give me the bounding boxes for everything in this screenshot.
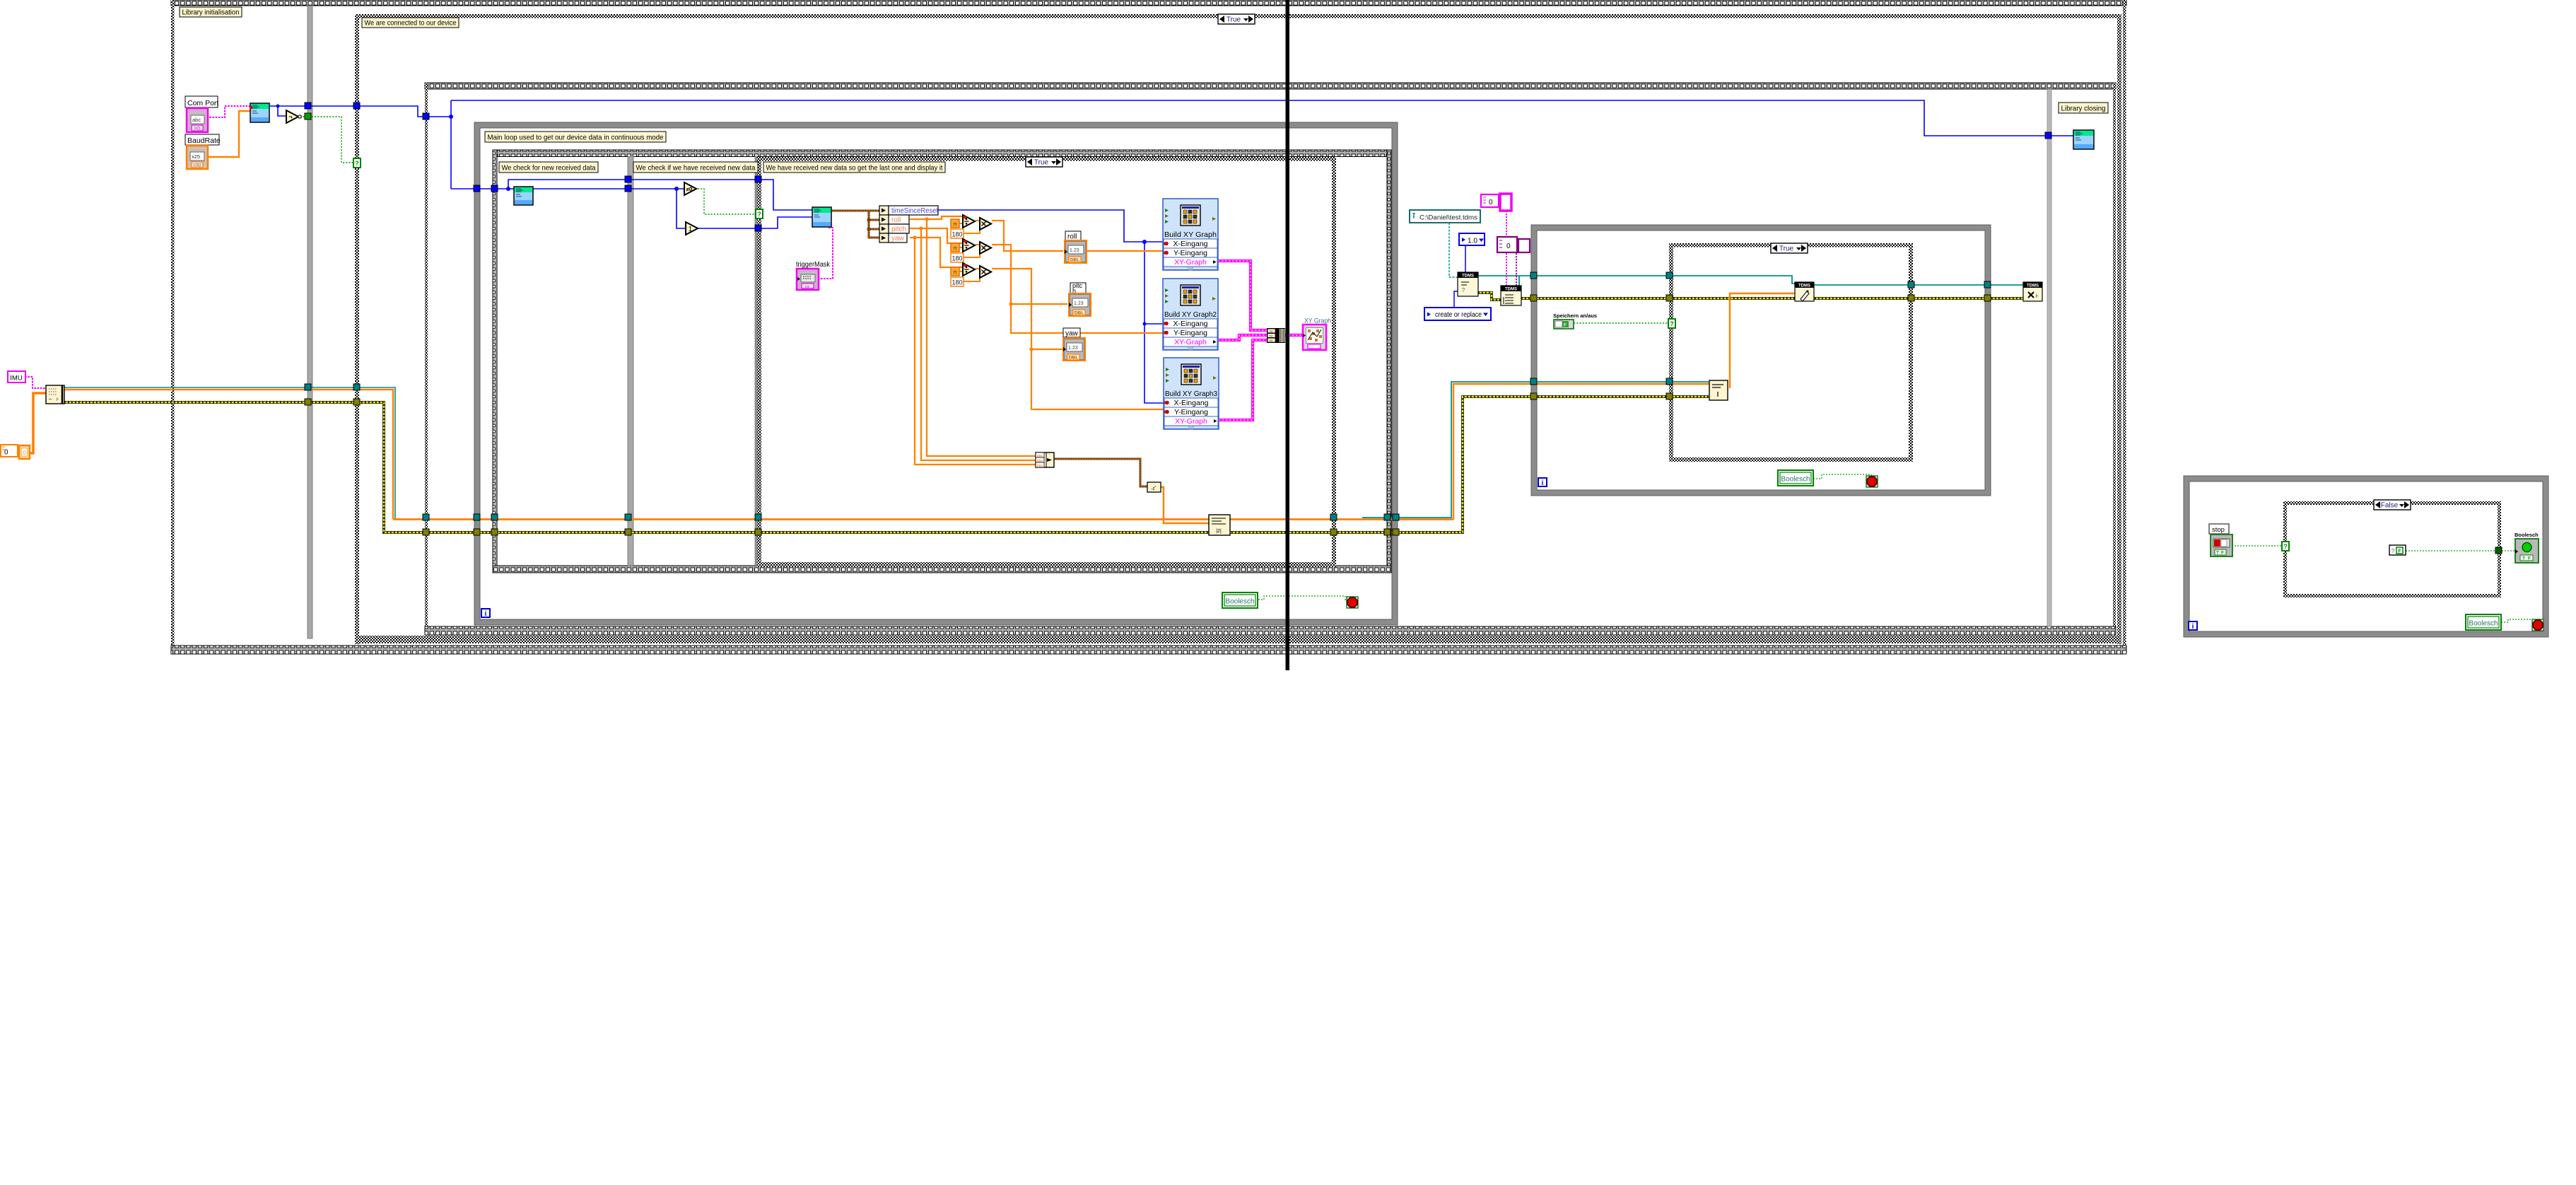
svg-text:abc: abc xyxy=(192,117,201,123)
wire: Boolesch loop4 to stop terminal xyxy=(2501,619,2533,624)
flat sequence seq1 (outer) xyxy=(171,0,2126,6)
comment: We check if we have received new data xyxy=(633,162,758,173)
wire: teal path lane (cluster to TDMS loop) xyxy=(64,387,395,518)
svg-text:TDMS: TDMS xyxy=(1505,288,1517,292)
wire: create-or-replace blue xyxy=(1454,291,1458,308)
svg-text:Build XY Graph2: Build XY Graph2 xyxy=(1164,310,1217,319)
svg-text:180: 180 xyxy=(952,255,962,262)
control: BaudRate xyxy=(185,134,219,145)
subVI: library closing xyxy=(2073,130,2094,149)
build array node (3 DBL to array) xyxy=(1036,453,1054,467)
indicator: Boolesch (TDMS loop) xyxy=(1778,470,1813,486)
wire: TDMS teal refnum chain xyxy=(1478,276,1795,284)
wire: pitch orange xyxy=(910,228,963,243)
svg-text:True: True xyxy=(1226,16,1241,24)
wire: roll orange xyxy=(910,216,963,219)
svg-text:π: π xyxy=(953,269,957,276)
comment: We are connected to our device xyxy=(362,18,459,28)
svg-text:IMU: IMU xyxy=(10,375,23,383)
svg-text:BaudRate: BaudRate xyxy=(187,136,221,145)
comment: Main loop xyxy=(485,132,666,142)
indicator: yaw xyxy=(1063,328,1080,337)
wire: purple constant dotted to TDMS props xyxy=(1516,253,1517,286)
wire: error lane yellow-black xyxy=(64,397,1709,532)
svg-text:X-Eingang: X-Eingang xyxy=(1173,399,1208,407)
svg-text:Boolesch: Boolesch xyxy=(1781,476,1810,484)
tunnel: green xyxy=(305,113,311,119)
iteration terminal main loop xyxy=(481,609,490,617)
svg-text:?: ? xyxy=(355,160,359,167)
svg-text:False: False xyxy=(2381,502,2399,510)
svg-text:Boolesch: Boolesch xyxy=(2469,620,2498,628)
svg-text:Library closing: Library closing xyxy=(2061,105,2106,113)
format node (=|) xyxy=(1709,380,1728,400)
case structure case4 "False" xyxy=(2283,501,2501,505)
svg-text:C:\Daniel\test.tdms: C:\Daniel\test.tdms xyxy=(1419,214,1477,222)
wire: orange array constant to bundle xyxy=(30,393,46,453)
svg-text:Y-Eingang: Y-Eingang xyxy=(1173,329,1207,337)
wire: orange BaudRate to init VI xyxy=(208,111,250,157)
svg-text:yaw: yaw xyxy=(891,235,905,243)
constant: magenta box xyxy=(1500,194,1511,211)
svg-text:1.23: 1.23 xyxy=(1068,346,1078,351)
svg-text:0: 0 xyxy=(1506,243,1511,250)
wire: magenta Com Port to init VI xyxy=(206,106,250,117)
svg-text:T: T xyxy=(2216,551,2219,556)
tunnels: dark yellow error lanes xyxy=(305,399,311,405)
case3 selector label True xyxy=(1771,243,1808,253)
svg-text:≠0: ≠0 xyxy=(686,187,693,193)
svg-text:DBL: DBL xyxy=(1069,356,1078,361)
wire: orange data lane xyxy=(64,390,393,519)
svg-text:π: π xyxy=(953,245,957,252)
svg-text:?: ? xyxy=(757,211,761,218)
case1 selector label True xyxy=(1218,14,1255,24)
svg-text:We check for new received data: We check for new received data xyxy=(502,164,596,173)
wire: pi/180 scale group wires xyxy=(959,223,963,224)
svg-text:1.0: 1.0 xyxy=(1468,238,1477,245)
while loop: TDMS save loop xyxy=(1531,225,1991,230)
express VI: Build XY Graph2 xyxy=(1163,279,1218,350)
svg-text:F: F xyxy=(1564,324,1567,328)
wire: Speichern boolean to case3 selector xyxy=(1574,322,1668,324)
control: IMU xyxy=(8,371,25,383)
svg-text:TDMS: TDMS xyxy=(1462,274,1474,279)
wire: boolean green not-gate to case1 selector xyxy=(300,117,354,163)
svg-text:?: ? xyxy=(2391,548,2395,554)
svg-text:0: 0 xyxy=(1489,199,1493,206)
unbundle by name node xyxy=(879,206,889,215)
svg-text:F: F xyxy=(2221,551,2224,556)
case structure case2 "True" (display data) xyxy=(757,157,1336,161)
svg-text:X-Eingang: X-Eingang xyxy=(1173,320,1207,328)
svg-text:We have received new data so g: We have received new data so get the las… xyxy=(766,164,943,173)
TDMS Set Properties xyxy=(1501,286,1521,305)
stop terminal TDMS loop xyxy=(1866,476,1878,487)
case selectors [?] xyxy=(353,158,361,168)
iteration terminal TDMS loop xyxy=(1538,478,1547,486)
svg-text:We are connected to our device: We are connected to our device xyxy=(365,19,457,28)
svg-text:Y-Eingang: Y-Eingang xyxy=(1174,408,1208,416)
svg-text:Build XY Graph3: Build XY Graph3 xyxy=(1165,390,1217,398)
svg-text:i: i xyxy=(485,610,487,618)
svg-text:T: T xyxy=(2522,557,2525,561)
constant: purple 0 pair xyxy=(1497,237,1517,252)
svg-text:180: 180 xyxy=(952,231,962,238)
svg-text:XY-Graph: XY-Graph xyxy=(1174,258,1207,267)
svg-text:x25: x25 xyxy=(192,153,200,160)
wire: timeSinceReset blue to XY graph X inputs xyxy=(938,210,1163,242)
svg-text:TDMS: TDMS xyxy=(2027,284,2039,288)
seq2 frame divider (library closing) xyxy=(2047,89,2051,626)
svg-text:DBL: DBL xyxy=(1070,258,1079,263)
stop terminal main loop xyxy=(1347,597,1358,608)
svg-text:TDMS: TDMS xyxy=(1798,284,1810,288)
pi constants and 180 constants with divide/multiply triangles xyxy=(951,219,959,228)
svg-text:F: F xyxy=(2528,557,2531,561)
indicator: roll xyxy=(1065,231,1081,240)
svg-text:Library initialisation: Library initialisation xyxy=(182,8,240,17)
wire: false constant to Boolesch indicator xyxy=(2406,550,2515,551)
svg-text:timeSinceReset: timeSinceReset xyxy=(891,207,938,215)
svg-text:Speichern an/aus: Speichern an/aus xyxy=(1553,313,1597,319)
subVI: check for new data xyxy=(514,187,533,205)
indicator: Boolesch label box loop4 xyxy=(2466,614,2501,630)
seq3 divider 2 xyxy=(755,156,757,566)
bundle node (3 plots) xyxy=(1267,328,1285,343)
wire: scaled roll to indicator and graph1 Y xyxy=(992,221,1063,251)
wire: magenta IMU to bundle xyxy=(25,377,46,388)
wire: short blue from init vi to not-gate xyxy=(278,106,286,116)
tunnels: TDMS refnum/error xyxy=(1530,272,1537,279)
svg-text:True: True xyxy=(1034,159,1049,167)
svg-text:XY-Graph: XY-Graph xyxy=(1175,417,1207,426)
svg-text:DBL: DBL xyxy=(1037,464,1043,467)
tunnels: blue xyxy=(305,103,311,109)
control: stop button xyxy=(2209,524,2229,534)
while loop: main loop xyxy=(474,122,1398,128)
comment: Library initialisation xyxy=(180,7,242,17)
neq0 triangle xyxy=(684,182,696,195)
svg-text:triggerMask: triggerMask xyxy=(796,261,831,269)
wire: scaled pitch to indicator and graph2 Y xyxy=(992,245,1163,333)
wire: pink XY-Graph outputs to bundle xyxy=(1218,261,1267,330)
false constant node xyxy=(2389,545,2406,555)
svg-text:create or replace: create or replace xyxy=(1435,311,1482,319)
control: Com Port xyxy=(185,96,218,107)
seq3 divider 1 xyxy=(628,156,633,566)
svg-text:i: i xyxy=(1542,479,1544,487)
svg-text:–: – xyxy=(49,396,52,402)
case2 selector label True xyxy=(1026,157,1062,167)
svg-text:Y-Eingang: Y-Eingang xyxy=(1173,249,1207,257)
constant: 1.0 ring xyxy=(1459,233,1485,245)
svg-text:U32: U32 xyxy=(193,164,201,168)
svg-text:0: 0 xyxy=(23,450,26,456)
TDMS Close xyxy=(2023,282,2042,301)
svg-text:DBL: DBL xyxy=(1037,454,1043,457)
wire: pink constant dotted to TDMS props xyxy=(1506,211,1507,286)
wire: Boolesch TDMS loop to stop terminal xyxy=(1813,474,1871,479)
svg-text:|2|: |2| xyxy=(1216,529,1222,534)
spreadsheet/format node on lanes xyxy=(1209,515,1230,535)
svg-text:stop: stop xyxy=(2212,526,2225,534)
svg-text:Main loop used to get our devi: Main loop used to get our device data in… xyxy=(488,134,664,142)
svg-text:1: 1 xyxy=(689,226,693,233)
wire: orange node up to TDMS write xyxy=(1730,293,1795,388)
express VI: Build XY Graph xyxy=(1163,199,1218,270)
wire: Boolesch main loop to stop terminal xyxy=(1255,596,1347,601)
svg-text:roll: roll xyxy=(891,216,901,224)
wire: cluster brown unbundle feed xyxy=(831,210,879,212)
svg-text:¬: ¬ xyxy=(288,113,292,120)
constant 1 triangle xyxy=(686,222,698,235)
wire: file path teal dashed xyxy=(1449,223,1458,277)
svg-text:roll: roll xyxy=(1067,233,1077,241)
svg-text:XY-Graph: XY-Graph xyxy=(1174,338,1207,346)
case4 selector label False xyxy=(2374,500,2411,510)
svg-text:X-Eingang: X-Eingang xyxy=(1173,240,1207,248)
svg-text:DBL: DBL xyxy=(1075,311,1084,316)
svg-text:180: 180 xyxy=(952,279,962,286)
wire: init VI blue handle wire to main structures xyxy=(269,106,451,117)
wire: stop button to case4 selector xyxy=(2232,545,2283,547)
wire: magenta triggerMask xyxy=(819,228,833,279)
svg-text:pitch: pitch xyxy=(891,226,906,233)
svg-text:We check if we have received n: We check if we have received new data xyxy=(636,164,756,173)
svg-text:⊦: ⊦ xyxy=(57,397,59,402)
svg-text:I/O: I/O xyxy=(194,127,200,132)
tunnels: teal lanes xyxy=(305,384,311,390)
not gate xyxy=(286,110,298,123)
svg-text:≡≡: ≡≡ xyxy=(805,285,809,289)
svg-text:⊦: ⊦ xyxy=(2036,293,2039,299)
svg-text:1.23: 1.23 xyxy=(1070,248,1079,253)
case structure case1 "We are connected to our device" xyxy=(355,14,2121,18)
seq1 frame divider xyxy=(308,6,312,638)
while loop: bottom-right stop loop xyxy=(2184,476,2548,481)
svg-text:yaw: yaw xyxy=(1065,330,1079,338)
subVI: library init xyxy=(250,103,269,122)
stop terminal loop4 xyxy=(2532,619,2543,631)
svg-text:True: True xyxy=(1779,245,1794,253)
case structure case3 "True" (TDMS write) xyxy=(1669,243,1913,247)
tunnel: green case4 xyxy=(2495,547,2502,554)
iteration terminal loop4 xyxy=(2189,621,2197,630)
constant: create or replace ring xyxy=(1424,308,1491,320)
flat sequence seq3 (3 frames) xyxy=(493,150,1391,157)
wire: cluster to 1J node and to write lane xyxy=(1054,459,1147,486)
indicator: pitch xyxy=(1070,283,1086,293)
wire: boolean green neq0 to case2 selector xyxy=(698,189,756,214)
bundle node (IMU cluster) xyxy=(46,385,64,404)
wire: yaw orange xyxy=(910,238,963,267)
array-to-cluster node 1J xyxy=(1147,482,1161,492)
comment: Library closing xyxy=(2059,103,2108,113)
svg-text:DBL: DBL xyxy=(1037,459,1043,462)
indicator: Boolesch (main loop) xyxy=(1222,592,1258,608)
comment: We have received new data ... xyxy=(763,162,945,173)
svg-text:?: ? xyxy=(2283,543,2288,550)
svg-text:co: co xyxy=(1270,329,1273,333)
flat sequence seq2 (inner big) xyxy=(425,83,2116,89)
comment: We check for new received data xyxy=(499,162,598,173)
svg-text:?: ? xyxy=(1670,320,1674,327)
page divider vertical black line xyxy=(1286,0,1290,670)
constant: pink 0 xyxy=(1481,194,1499,207)
svg-text:˗ɪ˘: ˗ɪ˘ xyxy=(1151,486,1157,491)
svg-text:Build XY Graph: Build XY Graph xyxy=(1164,230,1217,239)
TDMS Write xyxy=(1795,282,1814,301)
svg-text:co: co xyxy=(1270,339,1273,342)
subVI: get last data xyxy=(812,207,831,227)
TDMS Open xyxy=(1458,272,1478,296)
svg-text:Com Port: Com Port xyxy=(187,99,218,107)
svg-text:?: ? xyxy=(1462,287,1465,293)
svg-text:co: co xyxy=(1270,334,1273,338)
svg-text:F: F xyxy=(2398,549,2401,554)
wire: TDMS error chain xyxy=(1478,293,1501,300)
express VI: Build XY Graph3 xyxy=(1164,358,1219,429)
svg-text:Boolesch: Boolesch xyxy=(2514,532,2539,538)
constant: file path C:\Daniel\test.tdms xyxy=(1410,210,1480,223)
svg-text:i: i xyxy=(2192,623,2194,631)
svg-text:π: π xyxy=(953,221,957,228)
wire: scaled yaw to indicator and graph3 Y xyxy=(992,269,1164,409)
constant: 0 array xyxy=(1,445,18,457)
svg-text:1.23: 1.23 xyxy=(1074,301,1084,306)
svg-text:Boolesch: Boolesch xyxy=(1225,598,1254,606)
wire: 1.0 constant blue xyxy=(1465,245,1466,272)
